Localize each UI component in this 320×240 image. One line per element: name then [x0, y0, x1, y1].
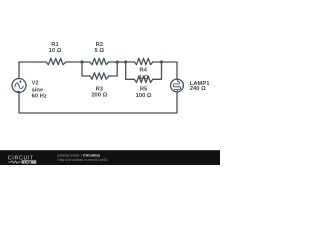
wire lamp bottom to bottom rail — [19, 92, 177, 113]
resistor R5 — [134, 76, 152, 82]
wire R1 to node A — [66, 61, 82, 63]
svg-text:10 Ω: 10 Ω — [49, 48, 62, 54]
svg-text:sine: sine — [32, 87, 44, 93]
wire R5 branch right — [153, 62, 162, 79]
svg-text:200 Ω: 200 Ω — [91, 93, 107, 99]
svg-text:V2: V2 — [32, 81, 39, 87]
voltage source V2 plus — [19, 81, 21, 83]
node D junction dot — [160, 60, 163, 63]
wire node D to lamp top — [162, 62, 178, 79]
wire top rail V2 to R1 — [19, 62, 46, 79]
resistor R3 — [90, 73, 109, 79]
svg-text:LAB: LAB — [24, 160, 32, 164]
svg-text:1 Ω: 1 Ω — [139, 75, 149, 81]
lamp LAMP1 circle — [171, 79, 184, 92]
node C junction dot — [124, 60, 127, 63]
svg-text:100 Ω: 100 Ω — [136, 93, 152, 99]
svg-text:R3: R3 — [96, 86, 104, 92]
wire R3 branch left — [82, 75, 90, 77]
voltage source V2 sine — [15, 83, 23, 89]
footer logo zigzag — [9, 161, 21, 163]
voltage source V2 minus — [17, 90, 20, 92]
node A junction dot — [80, 60, 83, 63]
resistor R4 — [134, 58, 152, 64]
svg-text:60 Hz: 60 Hz — [32, 94, 47, 100]
wire R3 branch right — [109, 62, 118, 76]
wire node A to R2 — [82, 61, 90, 63]
resistor R2 — [90, 58, 109, 64]
node B junction dot — [116, 60, 119, 63]
footer bar — [0, 150, 220, 165]
resistor R1 — [46, 58, 66, 64]
voltage source V2 circle — [12, 79, 26, 93]
wire R2 to node B — [109, 61, 118, 63]
wire R4 to node D — [153, 61, 162, 63]
footer logo LAB box — [22, 160, 37, 164]
wire node B to node C — [117, 61, 126, 63]
svg-text:240 Ω: 240 Ω — [190, 86, 206, 92]
svg-text:R5: R5 — [140, 86, 148, 92]
wire R2R3 left vertical — [81, 62, 83, 76]
svg-text:R4: R4 — [139, 67, 147, 73]
svg-text:http://circuitlab.com/c62qnt3: http://circuitlab.com/c62qnt3 — [58, 157, 109, 162]
wire R4R5 left vertical — [126, 62, 135, 79]
lamp LAMP1 filament — [173, 79, 180, 92]
svg-text:5 Ω: 5 Ω — [95, 48, 105, 54]
wire node C to R4 — [126, 61, 135, 63]
